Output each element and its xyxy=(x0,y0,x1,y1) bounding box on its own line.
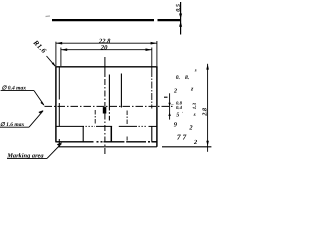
svg-text:1.3: 1.3 xyxy=(192,102,198,109)
svg-text:0.5: 0.5 xyxy=(175,4,182,12)
center pad square xyxy=(103,107,107,113)
overall height dim far right xyxy=(207,64,209,152)
svg-text:0.: 0. xyxy=(176,75,180,81)
seat line under part xyxy=(59,146,157,148)
strip divider center (thick) xyxy=(110,126,112,141)
horizontal centerline xyxy=(45,105,175,107)
svg-text:s: s xyxy=(194,69,197,74)
inner left edge xyxy=(58,67,60,146)
right small dim xyxy=(169,93,171,119)
pad centerline left xyxy=(94,110,96,125)
pad centerline right xyxy=(126,111,128,141)
dim 20 extension left xyxy=(60,48,62,67)
svg-text:.: . xyxy=(182,109,183,114)
svg-text:2: 2 xyxy=(193,139,197,146)
svg-text:2: 2 xyxy=(173,88,177,94)
terminal strip top line xyxy=(57,125,157,127)
strip divider left xyxy=(82,126,84,141)
svg-text:∅ 0.4 max: ∅ 0.4 max xyxy=(2,85,27,92)
electrode line A xyxy=(108,75,110,121)
svg-text:5: 5 xyxy=(176,113,179,119)
svg-text:s: s xyxy=(193,112,196,118)
electrode line B xyxy=(120,74,122,108)
left callout leader 1 xyxy=(1,90,34,92)
svg-text:7 7: 7 7 xyxy=(177,133,187,142)
main view outline: left edge, top edge, right edge down to seat line xyxy=(56,67,157,147)
thickness dim arrow lower xyxy=(179,21,182,26)
svg-text:8.: 8. xyxy=(185,75,189,81)
dim line 22.8 xyxy=(56,42,157,44)
vertical centerline xyxy=(104,57,106,156)
corner radius leader R1.6 xyxy=(47,56,56,66)
side view plate edge right segment xyxy=(158,19,182,21)
thickness dim arrow upper xyxy=(179,14,182,19)
dim 22.8 extension right xyxy=(156,41,158,66)
side view plate edge left segment xyxy=(52,19,154,21)
left callout leader 2 xyxy=(0,126,29,128)
dim 22.8 extension left xyxy=(55,42,57,66)
svg-text:20: 20 xyxy=(100,44,108,51)
svg-text:∅ 1.6 max: ∅ 1.6 max xyxy=(0,121,24,128)
dim line 20 xyxy=(61,49,152,51)
svg-text:Marking area: Marking area xyxy=(6,152,44,159)
hidden feature centerline right xyxy=(151,48,153,109)
svg-text:2.8: 2.8 xyxy=(202,107,209,117)
side view thickness extension line xyxy=(180,2,182,35)
seat line extension to right dimension xyxy=(162,146,211,148)
faint scan smudge xyxy=(46,15,51,18)
strip divider right xyxy=(151,126,153,141)
bottom callout leader xyxy=(7,157,47,159)
bottom edge segments xyxy=(55,141,156,143)
